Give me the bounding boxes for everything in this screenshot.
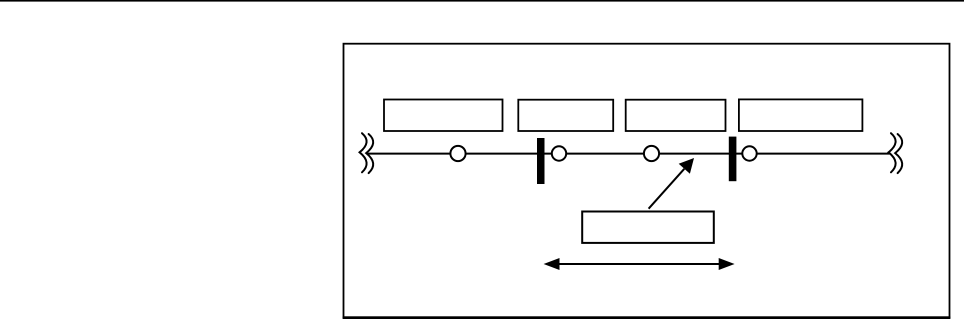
page top rule <box>0 0 964 2</box>
insulated joint bar 1 <box>537 138 545 184</box>
section label box 4 <box>739 99 863 131</box>
callout arrow <box>649 158 694 209</box>
node circle 3 <box>644 146 659 161</box>
break symbol right <box>889 133 903 173</box>
extent double arrow <box>544 258 735 270</box>
section label box 2 <box>518 100 613 131</box>
figure frame <box>344 44 950 318</box>
callout box <box>582 212 714 243</box>
node circle 4 <box>742 146 756 160</box>
break symbol left <box>360 133 374 173</box>
node circle 1 <box>450 146 465 161</box>
node circle 2 <box>552 146 566 160</box>
figure frame bottom edge <box>343 317 951 319</box>
section label box 1 <box>384 100 503 132</box>
section label box 3 <box>626 100 726 131</box>
insulated joint bar 2 <box>729 137 737 182</box>
wire: track line <box>367 153 890 155</box>
